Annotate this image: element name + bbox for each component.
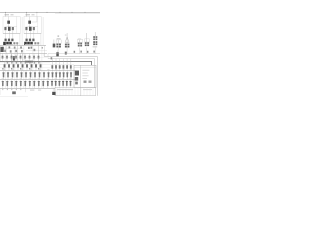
transformer T2 [66,33,68,44]
breaker QF5 below T2 [65,52,67,55]
wire [19,34,21,46]
feeder breaker QFA11 [48,71,50,80]
pushbutton SB6 [24,54,26,61]
aux contact S1 [2,47,4,49]
top bus L1 [0,12,100,14]
terminal row unit 2 [34,42,36,44]
wire [33,31,35,39]
wire long risers through rows [6,45,42,88]
contactor KM13 [12,27,14,30]
label: unit 1 designation [5,14,10,15]
transformer T1 case [56,40,61,44]
current transformer CT1 [13,56,15,60]
relay K14 [84,81,87,83]
aux marks below groups [74,51,76,53]
node junction dots on top bus [4,11,7,14]
aux contact S2 [9,46,11,48]
wire hook a [43,54,45,57]
wire feeder to unit 1 [5,12,7,16]
label: cabinet text [82,69,89,72]
control relay KD3 [59,59,61,71]
terminal strip TB1 [55,88,96,96]
wire mesh line c [0,61,50,63]
wire [10,54,12,61]
aux contact sub-row a [7,62,8,64]
label: wire numbers [6,43,13,46]
PLC cabinet outline [74,65,96,87]
label: T2 value [65,34,67,37]
breaker QF4 below T1 [57,51,59,54]
transformer T3 [79,40,81,43]
control relay KC2 [8,61,10,71]
wire control rail [26,25,39,27]
contactor KR1 [52,71,54,80]
pushbutton SB7 [29,54,31,61]
feeder breaker QFA9 [39,71,41,80]
wire [8,17,10,21]
pushbutton SB2 [6,54,8,61]
feeder breaker QFA1 [3,71,5,80]
label: cabinet text rows [82,74,88,77]
wire [29,31,31,39]
power supply PS1 [75,71,79,76]
PLC cabinet inner rail [74,66,96,68]
fuse FU4 [62,80,64,88]
wire [12,31,14,39]
wire [8,24,10,27]
wire inter-unit tie 1 [21,17,23,45]
wire [80,65,82,96]
wire riser [17,44,19,61]
terminal feet row 3 [1,89,4,91]
label: unit 2 designation [26,14,31,15]
wire cross line 2 [0,67,50,69]
aux relay KA3 [15,50,17,52]
aux contact S6 [31,47,33,49]
relay K9 [38,80,40,88]
fuse FU1 [51,80,53,88]
meter M1 [0,47,3,52]
wire ring main outer [44,56,97,95]
contactor KM11 [4,27,6,30]
wire hook b [47,54,49,59]
transformer T1 [57,40,59,44]
wire [29,24,31,27]
fuse FU2 [55,80,57,88]
wire [21,54,23,61]
thermal overload FR2 [26,39,28,42]
wire feeder drop [32,12,37,22]
wire [86,48,88,54]
label: T5 value [93,45,98,48]
bus: MCC horizontal tie [0,45,46,47]
control relay KC1 [4,61,6,71]
contactor KR4 [63,71,65,80]
label: feeder tags row 2 [2,77,4,80]
feeder breaker QFA5 [21,71,23,80]
thermal overload FR1 [5,39,7,42]
relay K11 [47,80,49,88]
aux relay KA4 [21,50,23,52]
wire cabinet inner vertical [94,67,96,87]
label: T1 value [57,37,61,40]
terminal row unit 1 [13,42,15,44]
control relay KD1 [51,59,53,71]
wire cross line 3 [0,57,47,59]
breaker QF2 [28,21,31,24]
control relay KD2 [55,59,57,71]
wire [29,17,31,21]
aux relay KA2 [10,50,12,52]
relay K2 [6,80,8,88]
wire [94,48,96,54]
relay K4 [15,80,17,88]
MCC unit 2 enclosure bottom rail [24,33,41,35]
wire cross line [0,63,74,65]
control relay KC5 [22,61,24,71]
aux relay KA1 [4,50,6,52]
feeder breaker QFA2 [7,71,9,80]
pushbutton SB9 [38,54,40,61]
relay K13 [75,82,78,85]
fuse FU5 [66,80,68,88]
control relay KC4 [17,61,19,71]
control relay KD5 [66,59,68,71]
wire riser [44,45,46,56]
feeder breaker QFA4 [16,71,18,80]
control relay KC7 [31,61,33,71]
label: note text [30,89,34,92]
contactor KR5 [66,71,68,80]
bus: main lower distribution [0,62,92,66]
wire riser [38,45,40,61]
aux contact S7 [42,47,43,49]
control relay KD4 [62,59,64,71]
wire [57,48,59,54]
wire [66,48,68,54]
node A marker [12,91,16,94]
wire [8,31,10,39]
feeder breaker QFA3 [12,71,14,80]
MCC unit 1 enclosure bottom rail [3,33,20,35]
label: motor M1 rating [3,42,6,45]
fuse FU3 [58,80,60,88]
relay K15 [89,81,92,83]
transformer T4 case [85,39,90,42]
wire bottom rail [0,96,28,98]
wire [0,88,1,95]
wire [79,48,81,54]
label: T3 value [78,38,81,41]
wire ring main middle [48,59,95,88]
wire [48,53,100,55]
pushbutton SB5 [20,54,22,61]
potential transformer T5 [94,32,96,36]
relay K10 [42,80,44,88]
ground [52,92,55,95]
wire riser [5,45,7,53]
feeder breaker QFA10 [43,71,45,80]
wire stub [24,88,26,92]
feeder breaker QFA7 [30,71,32,80]
fuse FU6 [70,80,72,88]
MCC unit 2 enclosure [24,17,41,34]
control wiring mesh line b [26,50,47,52]
pushbutton SB4 [15,54,17,61]
relay K3 [11,80,13,88]
control wiring mesh line a [0,47,24,49]
control relay KC6 [26,61,28,71]
aux contact S4 [20,47,22,49]
transformer T3 case [78,39,83,42]
feeder breaker QFA6 [25,71,27,80]
bus: feeder row bottom [0,88,55,90]
pushbutton SB3 [11,54,13,61]
transformer T4 [86,33,88,42]
aux contact S8 [51,57,53,59]
contactor KM12 [8,27,11,31]
bus: feeder row top [0,70,75,72]
wire neutral N [55,13,100,15]
relay K6 [24,80,26,88]
breaker QF1 [7,21,10,24]
relay K7 [29,80,31,88]
contactor KR3 [59,71,61,80]
label: motor M2 rating [24,42,27,45]
relay K12 [75,77,78,81]
wire [4,31,6,39]
wire pair to ground lug [52,88,54,92]
aux contact S5 [28,47,30,49]
control relay KC9 [40,61,42,71]
aux relay KA5 [34,49,36,51]
relay K1 [2,80,4,88]
wire inner rail [37,17,39,34]
relay K5 [20,80,22,88]
label: T1 cap [58,36,60,37]
junction box J1 [25,61,33,63]
bus: feeder row mid [0,79,75,81]
contactor KR6 [70,71,72,80]
wire [40,34,42,46]
aux contact S3 [14,47,16,49]
wire [25,31,27,39]
label: feeder tags row 1 [2,68,4,71]
aux contact sub-row b [2,68,3,70]
contactor KM21 [25,27,27,30]
pushbutton SB8 [33,54,35,61]
MCC unit 1 enclosure [3,17,20,34]
relay K8 [33,80,35,88]
terminal strip TB1 ticks [57,88,93,96]
wire inner rail [16,17,18,34]
wire control rail [5,25,18,27]
wire left margin riser [0,46,1,62]
bus: control power [0,53,47,55]
contactor KR2 [55,71,57,80]
contactor KM23 [33,27,35,30]
disconnect switch QS3 [53,40,55,44]
wire feeder to unit 2 [26,12,28,16]
control relay KC3 [13,61,15,71]
label: TB1 terminal numbers [57,88,73,91]
control relay KD6 [70,59,72,71]
pushbutton SB1 [2,54,4,61]
feeder breaker QFA8 [34,71,36,80]
contactor KM22 [29,27,32,31]
wire inter-unit tie 2 [42,17,44,45]
control relay KC8 [35,61,37,71]
